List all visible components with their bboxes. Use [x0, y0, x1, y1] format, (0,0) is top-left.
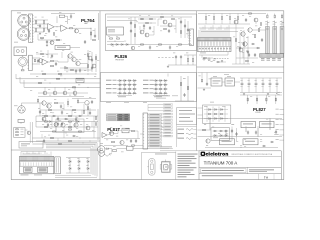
svg-text:7 A: 7 A [264, 175, 268, 179]
svg-text:PL826: PL826 [115, 54, 128, 59]
svg-text:PROTETOR: PROTETOR [116, 60, 125, 62]
svg-text:PL827: PL827 [253, 107, 266, 112]
svg-text:TITANIUM 700 A: TITANIUM 700 A [204, 161, 238, 166]
svg-text:INDUSTRIA E COMERCIO ELETRONIC: INDUSTRIA E COMERCIO ELETRONICA LTDA [232, 153, 273, 156]
svg-text:FONTE: FONTE [256, 112, 261, 114]
svg-text:PL817: PL817 [107, 127, 120, 132]
